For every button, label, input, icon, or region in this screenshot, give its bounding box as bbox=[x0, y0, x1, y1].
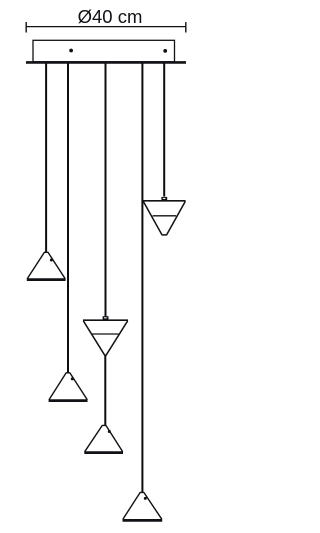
svg-text:Ø40 cm: Ø40 cm bbox=[78, 6, 143, 27]
